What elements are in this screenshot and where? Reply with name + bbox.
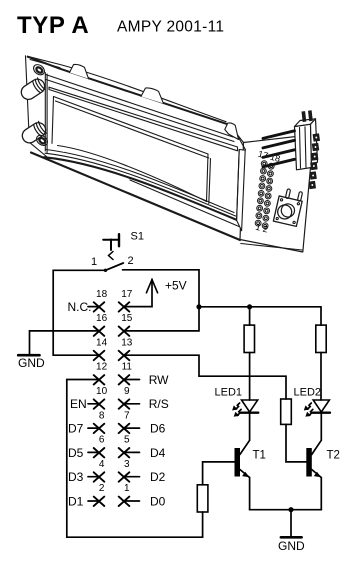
+5V arrowhead [146,280,157,293]
svg-text:T1: T1 [253,450,266,462]
LED1 emission arrows [232,403,241,417]
svg-text:11: 11 [122,362,133,373]
svg-text:EN: EN [70,397,87,411]
plate left and bottom edges [26,56,47,157]
svg-text:15: 15 [121,313,133,324]
bezel bottom line 3 [45,153,236,216]
pin17 lead and +5V arrow [124,280,152,307]
right pcb panel [240,135,314,253]
left bracket plate [26,56,65,152]
svg-text:D4: D4 [150,446,166,460]
D4 lead [124,451,140,453]
connector tower slots [300,127,307,168]
svg-text:D5: D5 [68,446,84,460]
top edge end bump [225,123,239,140]
D7 lead [88,427,99,429]
plate hole bottom outer [35,133,50,147]
window right edge [207,154,211,204]
svg-text:RW: RW [149,373,169,387]
svg-text:+5V: +5V [165,279,187,293]
wire R2 bottom to LED2 [320,353,322,401]
svg-text:LED2: LED2 [294,387,322,399]
switch S1 plunger stem [110,240,112,251]
svg-text:GND: GND [278,539,305,553]
pin number labels [96,289,133,494]
svg-text:3: 3 [124,459,130,470]
T2 emitter diagonal [312,470,322,478]
svg-text:9: 9 [124,386,130,397]
+5V rail to resistors [199,306,321,308]
panel bottom inner line [241,244,302,251]
D6 lead [124,427,140,429]
svg-text:17: 17 [121,289,133,300]
svg-text:D0: D0 [150,494,166,508]
pcb board bottom edge thick [31,153,240,241]
switch contact dot [104,269,107,272]
wire pin13 to middle resistor [124,355,286,399]
GND left branch from pin16 [30,331,100,354]
connector tower front face [295,124,312,170]
bezel face sliver band [49,87,238,151]
svg-text:16: 16 [96,313,108,324]
plate hole top inner ring [35,66,43,74]
junction dot rail mid [247,304,252,309]
wire pin12 to base loop [67,380,203,538]
D0 lead [124,500,140,502]
svg-text:T2: T2 [327,450,340,462]
svg-text:13: 13 [121,337,133,348]
notch line bump to panel [238,135,244,143]
LED1 triangle [242,400,258,412]
LED2 emission arrows [304,403,313,417]
switch S1 cap right bar [118,234,120,246]
bezel rim line 2 [46,80,234,142]
bezel bottom line 2 [46,150,234,213]
svg-text:D1: D1 [68,494,84,508]
connector pins dark diagonals [263,131,295,167]
switch S1 button cap [103,239,118,241]
RW lead [124,379,140,381]
wire contact2 down to +5V rail [123,270,200,331]
bezel left edge outer [44,73,46,152]
bezel side top corner [238,137,246,150]
resistor R2 [316,325,326,352]
wire contact1 to pin14 [53,270,105,355]
D3 lead [88,476,99,478]
window left edge [52,97,54,144]
connector tower prongs [302,110,313,122]
bezel rim line 1 [46,75,234,138]
svg-text:6: 6 [99,435,105,446]
bezel bottom edge thick [44,157,237,220]
svg-text:2: 2 [128,255,134,267]
svg-text:10: 10 [96,386,108,397]
svg-text:4: 4 [99,459,105,470]
bezel left edge inner [46,74,48,153]
junction dot rail left [196,304,201,309]
wire rail to R2 [320,307,322,325]
T1 emitter diagonal [240,470,250,478]
LED2 cathode bar [313,412,330,414]
window top edge outer [54,97,209,155]
N.C. lead to pin18 [88,306,99,308]
wire rail to GND2 [290,510,292,537]
T2 emitter arrowhead [314,472,321,478]
bezel bottom face back edge [130,180,239,227]
svg-text:D3: D3 [68,470,84,484]
wire T2 emitter down [320,478,322,510]
LED2 triangle [313,400,329,412]
GND right bar [281,536,302,539]
D1 lead [88,500,99,502]
svg-text:D2: D2 [150,470,166,484]
switch S1 linkage zigzag [109,252,114,260]
svg-text:D7: D7 [68,422,84,436]
svg-text:18: 18 [96,289,108,300]
T1 collector diagonal [240,440,250,454]
wire LED1 to T1 collector [249,414,251,441]
transistor T2 base bar [306,448,312,477]
connector tower top face [295,119,316,127]
svg-text:R/S: R/S [149,397,169,411]
svg-text:1: 1 [124,483,130,494]
EN lead [88,403,99,405]
plate top thickness line [30,60,60,68]
module top face back edge [28,56,227,121]
connector tower right face [311,119,318,168]
wire R1 top [249,307,251,325]
wire LED2 to T2 collector [320,414,322,441]
R/S lead [124,403,140,405]
LED1 cathode bar [241,412,258,414]
svg-text:D6: D6 [150,422,166,436]
T2 collector diagonal [312,440,322,454]
window bottom edge [58,146,207,202]
resistor R3 base T1 [197,485,208,512]
svg-text:12: 12 [96,362,108,373]
junction dot emitter rail [288,507,293,512]
svg-text:7: 7 [124,410,130,421]
plate hole bottom inner ring [38,137,46,145]
svg-text:14: 14 [96,337,108,348]
T1 emitter arrowhead [242,472,249,478]
D2 lead [124,476,140,478]
bezel right side face [237,150,246,231]
svg-text:TYP A: TYP A [17,12,89,39]
resistor R1 [244,325,254,352]
module top edge thick [28,57,229,125]
bezel front right edge [237,150,240,221]
wire R1 bottom to LED1 [249,353,251,401]
wire R3 top to T1 base [203,462,235,485]
resistor R4 middle [281,399,292,424]
wire T1 emitter down [249,478,251,510]
trimmer component [273,187,304,226]
bolt 2 [20,120,49,146]
transistor T1 base bar [235,448,241,477]
plate hole top outer [32,63,47,77]
GND left bar [18,354,39,357]
svg-text:2: 2 [99,483,105,494]
switch lever [106,263,124,270]
window top edge inner [56,101,209,158]
D5 lead [88,451,99,453]
svg-text:AMPY 2001-11: AMPY 2001-11 [117,19,224,36]
emitter common rail [250,509,322,511]
right edge lugs [309,134,319,189]
connector pin X marks [94,302,130,506]
svg-text:GND: GND [18,356,45,370]
bolt 1 [19,76,48,102]
svg-text:LED1: LED1 [215,387,243,399]
svg-text:5: 5 [124,435,130,446]
svg-text:8: 8 [99,410,105,421]
pad grid 2x9 [255,161,274,229]
svg-text:S1: S1 [131,231,144,243]
mounting tab 1 [70,64,89,78]
wire R4 bottom to T2 base [286,424,306,462]
svg-text:1: 1 [91,256,97,268]
mounting tab 2 [141,88,164,104]
